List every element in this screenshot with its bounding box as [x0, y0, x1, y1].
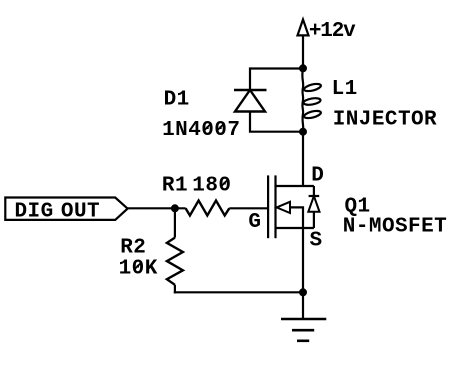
wire node B to drain: [302, 132, 304, 186]
slashed zero overlays: [134, 123, 229, 270]
resistor R2: [167, 238, 183, 285]
diode D1: [234, 90, 267, 112]
drain stub: [276, 185, 314, 187]
svg-text:R1: R1: [162, 175, 188, 198]
zero slash in 1N4007 second 0: [216, 123, 224, 131]
DIG OUT flag: [5, 198, 127, 220]
svg-text:1N4007: 1N4007: [162, 119, 240, 142]
body connection wire: [290, 207, 303, 228]
zero slash in R1 180: [221, 179, 229, 187]
svg-text:G: G: [248, 211, 261, 234]
body diode: [313, 186, 315, 196]
node D ground junction: [299, 288, 307, 296]
zero slash in 10K: [134, 262, 142, 270]
node A top junction: [299, 64, 307, 72]
node B bottom junction of L1: [299, 128, 307, 136]
wire source to node D: [302, 228, 304, 292]
svg-text:S: S: [310, 230, 323, 253]
svg-text:L1: L1: [332, 78, 358, 101]
svg-text:180: 180: [192, 175, 231, 198]
svg-text:INJECTOR: INJECTOR: [333, 108, 437, 131]
svg-text:10K: 10K: [119, 257, 158, 280]
wire node D to ground: [302, 292, 304, 319]
svg-text:OUT: OUT: [61, 201, 100, 224]
wire +12v arrow to node A: [302, 35, 304, 68]
wire diode branch top: [250, 69, 303, 91]
gate plate: [267, 175, 269, 238]
wire DIG OUT to node C: [128, 207, 186, 209]
source stub: [276, 227, 314, 229]
power +12v arrow: [298, 20, 309, 36]
wire bottom horizontal: [174, 291, 303, 293]
ground: [281, 319, 326, 341]
zero slash in 1N4007 first 0: [203, 123, 211, 131]
svg-text:R2: R2: [120, 237, 146, 260]
wire R1 to gate: [229, 207, 268, 209]
node C junction: [171, 204, 179, 212]
channel line: [274, 175, 276, 238]
svg-text:D1: D1: [164, 89, 190, 112]
transistor Q1 N-MOSFET: [268, 175, 319, 238]
svg-text:DIG: DIG: [15, 201, 54, 224]
wire R2 to bottom wire: [174, 285, 176, 294]
wire node C to R2: [174, 208, 176, 237]
body arrow: [277, 202, 290, 213]
svg-text:D: D: [311, 165, 324, 188]
inductor L1: [302, 69, 321, 132]
wire diode branch bottom: [250, 112, 303, 132]
svg-text:N-MOSFET: N-MOSFET: [343, 215, 447, 238]
svg-text:+12v: +12v: [309, 20, 356, 43]
resistor R1: [186, 201, 230, 216]
